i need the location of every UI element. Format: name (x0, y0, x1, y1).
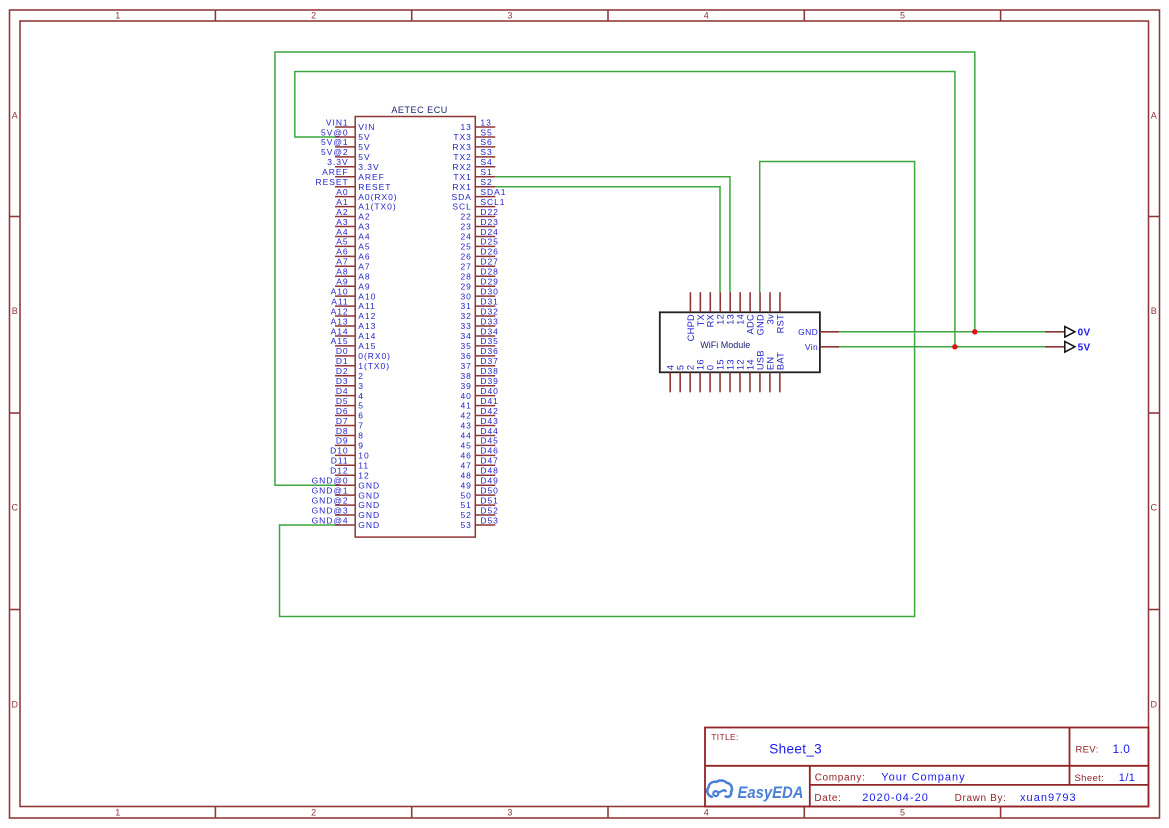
pin 47 (net D47) right of U1 (460, 456, 498, 471)
svg-text:2020-04-20: 2020-04-20 (862, 792, 929, 804)
pin A0(RX0) (net A0) left of U1 (335, 187, 398, 202)
pin 40 (net D40) right of U1 (460, 386, 498, 401)
pin 14 bottom of U2 (745, 359, 755, 392)
pin TX2 (net S3) right of U1 (453, 147, 495, 162)
svg-text:A3: A3 (336, 217, 348, 227)
pin A5 (net A5) left of U1 (335, 237, 371, 252)
svg-text:A0(RX0): A0(RX0) (358, 192, 397, 202)
pin 10 (net D10) left of U1 (330, 446, 370, 461)
junction dot net 5V (952, 344, 957, 349)
svg-text:5V@0: 5V@0 (321, 127, 349, 137)
pin 1(TX0) (net D1) left of U1 (335, 356, 390, 371)
svg-text:31: 31 (460, 301, 471, 311)
svg-text:B: B (1151, 306, 1157, 316)
pin 16 bottom of U2 (696, 359, 706, 392)
svg-text:1: 1 (115, 808, 120, 818)
svg-text:3: 3 (507, 808, 512, 818)
pin 24 (net D24) right of U1 (460, 227, 498, 242)
wire net 5V : U2 Vin pin to 5V net flag (839, 346, 1045, 348)
pin 42 (net D42) right of U1 (460, 406, 498, 421)
svg-text:5: 5 (676, 365, 686, 370)
svg-text:D50: D50 (480, 485, 498, 495)
svg-text:D0: D0 (336, 346, 349, 356)
svg-text:9: 9 (358, 441, 364, 451)
pin 50 (net D50) right of U1 (460, 485, 498, 500)
svg-text:GND: GND (358, 520, 380, 530)
Sheet value 1/1 (1119, 772, 1136, 784)
pin 32 (net D32) right of U1 (460, 306, 498, 321)
svg-text:VIN1: VIN1 (326, 117, 349, 127)
svg-text:RESET: RESET (358, 182, 391, 192)
svg-text:32: 32 (460, 311, 471, 321)
svg-text:5V: 5V (1078, 342, 1091, 353)
svg-text:42: 42 (460, 411, 471, 421)
svg-text:3: 3 (358, 381, 364, 391)
svg-text:0: 0 (705, 365, 715, 370)
pin 43 (net D43) right of U1 (460, 416, 498, 431)
pin A7 (net A7) left of U1 (335, 257, 371, 272)
svg-text:Sheet_3: Sheet_3 (769, 741, 822, 756)
svg-text:14: 14 (736, 314, 746, 325)
svg-text:35: 35 (460, 341, 471, 351)
Drawn By value xuan9793 (1020, 792, 1077, 804)
pin 39 (net D39) right of U1 (460, 376, 498, 391)
svg-text:D36: D36 (480, 346, 498, 356)
svg-text:CHPD: CHPD (686, 314, 696, 341)
svg-text:C: C (11, 503, 18, 513)
pin 3 (net D3) left of U1 (335, 376, 364, 391)
Date value 2020-04-20 (862, 792, 929, 804)
pin GND right of U2 (798, 327, 839, 337)
pin CHPD top of U2 (686, 292, 696, 341)
svg-text:A2: A2 (336, 207, 348, 217)
svg-text:25: 25 (460, 242, 471, 252)
svg-text:S5: S5 (480, 127, 492, 137)
svg-text:A14: A14 (358, 331, 376, 341)
pin BAT bottom of U2 (775, 352, 785, 392)
svg-text:30: 30 (460, 291, 471, 301)
svg-text:D34: D34 (480, 326, 498, 336)
svg-text:3.3V: 3.3V (358, 162, 379, 172)
REV value 1.0 (1113, 742, 1131, 756)
svg-text:26: 26 (460, 251, 471, 261)
svg-text:D6: D6 (336, 406, 349, 416)
pin 6 (net D6) left of U1 (335, 406, 364, 421)
pin GND (net GND@1) left of U1 (312, 485, 380, 500)
svg-text:A4: A4 (358, 232, 370, 242)
svg-text:A0: A0 (336, 187, 348, 197)
svg-text:4: 4 (358, 391, 364, 401)
pin 41 (net D41) right of U1 (460, 396, 498, 411)
svg-text:TX: TX (696, 314, 706, 326)
svg-text:45: 45 (460, 441, 471, 451)
pin GND top of U2 (755, 292, 765, 335)
svg-text:D47: D47 (480, 456, 498, 466)
svg-text:D27: D27 (480, 257, 498, 267)
svg-text:D2: D2 (336, 366, 349, 376)
svg-text:33: 33 (460, 321, 471, 331)
svg-text:RX3: RX3 (452, 142, 471, 152)
svg-text:15: 15 (715, 359, 725, 370)
svg-text:2: 2 (686, 365, 696, 370)
pin 29 (net D29) right of U1 (460, 277, 498, 292)
IC U1 name label AETEC ECU (391, 105, 447, 115)
pin 22 (net D22) right of U1 (460, 207, 498, 222)
svg-text:D31: D31 (480, 296, 498, 306)
svg-text:D7: D7 (336, 416, 349, 426)
pin USB bottom of U2 (755, 350, 765, 392)
svg-text:A7: A7 (336, 257, 348, 267)
pin 15 bottom of U2 (715, 359, 725, 392)
svg-text:D4: D4 (336, 386, 349, 396)
svg-text:D42: D42 (480, 406, 498, 416)
pin A11 (net A11) left of U1 (331, 296, 375, 311)
svg-text:A11: A11 (358, 301, 375, 311)
wire net GND : U1 pin GND@4 around bottom to U2 top GND pin (280, 162, 915, 617)
sheet title value Sheet_3 (769, 741, 822, 756)
svg-text:B: B (12, 306, 18, 316)
svg-text:D46: D46 (480, 446, 498, 456)
pin 30 (net D30) right of U1 (460, 286, 498, 301)
svg-text:A9: A9 (336, 277, 348, 287)
svg-text:6: 6 (358, 411, 364, 421)
svg-text:S4: S4 (480, 157, 492, 167)
REV label (1076, 745, 1099, 756)
svg-text:GND: GND (358, 490, 380, 500)
Company value Your Company (881, 771, 965, 783)
svg-text:D: D (1151, 700, 1158, 710)
svg-text:RX1: RX1 (452, 182, 471, 192)
svg-text:10: 10 (358, 450, 369, 460)
svg-text:A5: A5 (336, 237, 348, 247)
svg-text:SCL1: SCL1 (480, 197, 505, 207)
pin A13 (net A13) left of U1 (331, 316, 377, 331)
svg-text:1(TX0): 1(TX0) (358, 361, 390, 371)
module U2 label WiFi Module (700, 340, 750, 350)
pin 36 (net D36) right of U1 (460, 346, 498, 361)
pin 46 (net D46) right of U1 (460, 446, 498, 461)
pin 13 top of U2 (726, 292, 736, 325)
svg-text:34: 34 (460, 331, 471, 341)
pin A1(TX0) (net A1) left of U1 (335, 197, 397, 212)
pin A14 (net A14) left of U1 (331, 326, 377, 341)
svg-text:D28: D28 (480, 267, 498, 277)
pin 52 (net D52) right of U1 (460, 505, 498, 520)
svg-text:48: 48 (460, 470, 471, 480)
svg-text:A12: A12 (358, 311, 376, 321)
svg-text:5V: 5V (358, 132, 370, 142)
pin GND (net GND@4) left of U1 (312, 515, 380, 530)
svg-text:USB: USB (755, 350, 765, 370)
svg-text:14: 14 (745, 359, 755, 370)
pin 12 top of U2 (716, 292, 726, 325)
svg-text:D: D (11, 700, 18, 710)
net flag 5V (1045, 342, 1091, 354)
svg-text:8: 8 (358, 431, 364, 441)
svg-text:2: 2 (311, 808, 316, 818)
svg-text:D35: D35 (480, 336, 498, 346)
svg-text:12: 12 (358, 470, 369, 480)
pin 48 (net D48) right of U1 (460, 466, 498, 481)
svg-text:28: 28 (460, 271, 471, 281)
pin A12 (net A12) left of U1 (331, 306, 377, 321)
Company label (815, 772, 866, 783)
Sheet label (1075, 773, 1105, 784)
pin ADC top of U2 (746, 292, 756, 334)
pin 5V (net 5V@2) left of U1 (321, 147, 371, 162)
pin 13 bottom of U2 (725, 359, 735, 392)
svg-text:5: 5 (900, 808, 905, 818)
svg-text:Company:: Company: (815, 772, 866, 783)
svg-text:A10: A10 (358, 291, 376, 301)
svg-text:S2: S2 (480, 177, 492, 187)
pin A3 (net A3) left of U1 (335, 217, 371, 232)
svg-text:A1(TX0): A1(TX0) (358, 202, 396, 212)
pin SDA (net SDA1) right of U1 (451, 187, 506, 202)
svg-text:11: 11 (358, 460, 369, 470)
pin Vin right of U2 (805, 342, 839, 352)
svg-text:23: 23 (460, 222, 471, 232)
svg-text:D51: D51 (480, 495, 498, 505)
svg-text:D22: D22 (480, 207, 498, 217)
svg-text:TITLE:: TITLE: (711, 732, 738, 742)
pin 31 (net D31) right of U1 (460, 296, 498, 311)
svg-text:1.0: 1.0 (1113, 742, 1131, 756)
svg-text:2: 2 (358, 371, 364, 381)
svg-text:D9: D9 (336, 436, 349, 446)
pin 5V (net 5V@1) left of U1 (321, 137, 371, 152)
svg-text:GND: GND (755, 314, 765, 335)
svg-text:50: 50 (460, 490, 471, 500)
pin 14 top of U2 (736, 292, 746, 325)
pin 8 (net D8) left of U1 (335, 426, 364, 441)
pin 38 (net D38) right of U1 (460, 366, 498, 381)
svg-text:D5: D5 (336, 396, 349, 406)
svg-text:A15: A15 (358, 341, 376, 351)
svg-text:27: 27 (460, 261, 471, 271)
svg-text:29: 29 (460, 281, 471, 291)
svg-text:A: A (1151, 110, 1157, 120)
svg-text:D26: D26 (480, 247, 498, 257)
svg-text:S6: S6 (480, 137, 492, 147)
svg-text:D33: D33 (480, 316, 498, 326)
module U2 WiFi Module body (660, 312, 820, 372)
svg-text:A13: A13 (358, 321, 376, 331)
svg-text:12: 12 (716, 314, 726, 325)
svg-text:TX3: TX3 (453, 132, 471, 142)
svg-text:5V@1: 5V@1 (321, 137, 349, 147)
svg-text:SDA1: SDA1 (480, 187, 506, 197)
svg-text:RX: RX (706, 314, 716, 327)
svg-text:1/1: 1/1 (1119, 772, 1136, 784)
pin RST top of U2 (775, 292, 785, 333)
wire net 5V : U1 pin 5V@0 to WiFi Vin junction (295, 72, 955, 347)
svg-text:A10: A10 (331, 286, 349, 296)
junction dot net 0V (972, 329, 977, 334)
pin 4 bottom of U2 (666, 365, 676, 393)
svg-text:BAT: BAT (775, 352, 785, 370)
svg-text:GND@2: GND@2 (312, 495, 349, 505)
svg-text:2: 2 (311, 11, 316, 21)
pin 5 (net D5) left of U1 (335, 396, 364, 411)
svg-text:D40: D40 (480, 386, 498, 396)
svg-text:GND@0: GND@0 (312, 476, 349, 486)
svg-text:RX2: RX2 (452, 162, 471, 172)
svg-text:D1: D1 (336, 356, 349, 366)
pin 0 bottom of U2 (705, 365, 715, 393)
pin SCL (net SCL1) right of U1 (452, 197, 505, 212)
pin A8 (net A8) left of U1 (335, 267, 371, 282)
svg-text:5: 5 (900, 11, 905, 21)
svg-text:A14: A14 (331, 326, 349, 336)
svg-text:13: 13 (726, 314, 736, 325)
pin TX top of U2 (696, 292, 706, 326)
svg-text:4: 4 (704, 11, 709, 21)
pin 28 (net D28) right of U1 (460, 267, 498, 282)
svg-text:D25: D25 (480, 237, 498, 247)
svg-text:D24: D24 (480, 227, 498, 237)
pin A9 (net A9) left of U1 (335, 277, 371, 292)
svg-text:Date:: Date: (814, 793, 841, 804)
svg-text:C: C (1151, 503, 1158, 513)
svg-text:D39: D39 (480, 376, 498, 386)
svg-text:GND: GND (358, 500, 380, 510)
svg-text:A12: A12 (331, 306, 349, 316)
svg-text:16: 16 (696, 359, 706, 370)
svg-text:D38: D38 (480, 366, 498, 376)
svg-text:0(RX0): 0(RX0) (358, 351, 391, 361)
svg-text:D44: D44 (480, 426, 498, 436)
svg-text:7: 7 (358, 421, 364, 431)
svg-text:D41: D41 (480, 396, 498, 406)
svg-text:41: 41 (460, 401, 471, 411)
svg-text:44: 44 (460, 431, 471, 441)
IC U1 AETEC ECU body (355, 117, 475, 538)
title block TITLE label (711, 732, 738, 742)
svg-text:0V: 0V (1078, 327, 1091, 338)
svg-text:REV:: REV: (1076, 745, 1099, 756)
pin 27 (net D27) right of U1 (460, 257, 498, 272)
svg-text:40: 40 (460, 391, 471, 401)
pin GND (net GND@0) left of U1 (312, 476, 380, 491)
wire net 0V : U1 pin GND@0 to 0V flag junction (275, 52, 975, 485)
svg-text:VIN: VIN (358, 122, 375, 132)
pin 0(RX0) (net D0) left of U1 (335, 346, 391, 361)
pin VIN (net VIN1) left of U1 (326, 117, 375, 132)
pin A10 (net A10) left of U1 (331, 286, 377, 301)
pin 2 bottom of U2 (686, 365, 696, 393)
svg-text:AREF: AREF (358, 172, 384, 182)
svg-text:SDA: SDA (451, 192, 471, 202)
svg-text:D45: D45 (480, 436, 498, 446)
pin A15 (net A15) left of U1 (331, 336, 377, 351)
svg-text:EN: EN (765, 357, 775, 370)
svg-text:D32: D32 (480, 306, 498, 316)
pin A6 (net A6) left of U1 (335, 247, 371, 262)
svg-text:WiFi Module: WiFi Module (700, 340, 750, 350)
frame column numbers (115, 11, 905, 818)
svg-text:A9: A9 (358, 281, 370, 291)
pin 51 (net D51) right of U1 (460, 495, 498, 510)
svg-text:Sheet:: Sheet: (1075, 773, 1105, 784)
svg-text:49: 49 (460, 480, 471, 490)
frame row letters (11, 110, 1157, 709)
pin 5 bottom of U2 (676, 365, 686, 393)
svg-text:51: 51 (460, 500, 471, 510)
pin 34 (net D34) right of U1 (460, 326, 498, 341)
pin 4 (net D4) left of U1 (335, 386, 364, 401)
pin 12 bottom of U2 (735, 359, 745, 392)
wire net S2 : U1 pin RX1 to U2 pin 12 (495, 187, 720, 293)
svg-text:A15: A15 (331, 336, 349, 346)
svg-text:12: 12 (735, 359, 745, 370)
svg-text:A6: A6 (358, 251, 370, 261)
svg-text:RST: RST (775, 314, 785, 333)
pin 11 (net D11) left of U1 (331, 456, 369, 471)
svg-text:ADC: ADC (746, 314, 756, 334)
svg-text:D43: D43 (480, 416, 498, 426)
pin 3v top of U2 (765, 292, 775, 324)
svg-text:TX1: TX1 (453, 172, 471, 182)
svg-text:Drawn By:: Drawn By: (955, 793, 1007, 804)
svg-text:37: 37 (460, 361, 471, 371)
pin RESET (net RESET) left of U1 (316, 177, 392, 192)
svg-text:A5: A5 (358, 242, 370, 252)
svg-text:D12: D12 (330, 466, 348, 476)
svg-text:AETEC ECU: AETEC ECU (391, 105, 447, 115)
svg-text:A7: A7 (358, 261, 370, 271)
svg-text:A8: A8 (358, 271, 370, 281)
svg-text:4: 4 (704, 808, 709, 818)
svg-text:A13: A13 (331, 316, 349, 326)
svg-text:5: 5 (358, 401, 364, 411)
svg-text:xuan9793: xuan9793 (1020, 792, 1077, 804)
pin 49 (net D49) right of U1 (460, 476, 498, 491)
pin 44 (net D44) right of U1 (460, 426, 498, 441)
pin 12 (net D12) left of U1 (330, 466, 370, 481)
svg-text:13: 13 (725, 359, 735, 370)
svg-text:36: 36 (460, 351, 471, 361)
pin RX2 (net S4) right of U1 (452, 157, 495, 172)
svg-text:A: A (12, 110, 18, 120)
pin GND (net GND@3) left of U1 (312, 505, 380, 520)
svg-text:1: 1 (115, 11, 120, 21)
svg-text:D48: D48 (480, 466, 498, 476)
pin 7 (net D7) left of U1 (335, 416, 364, 431)
pin RX top of U2 (706, 292, 716, 327)
wire net S1 : U1 pin TX1 to U2 pin 13 (495, 177, 730, 292)
svg-text:D23: D23 (480, 217, 498, 227)
pin 37 (net D37) right of U1 (460, 356, 498, 371)
svg-text:TX2: TX2 (453, 152, 471, 162)
svg-text:53: 53 (460, 520, 471, 530)
svg-text:AREF: AREF (322, 167, 348, 177)
svg-text:D37: D37 (480, 356, 498, 366)
svg-text:24: 24 (460, 232, 471, 242)
pin 25 (net D25) right of U1 (460, 237, 498, 252)
svg-text:38: 38 (460, 371, 471, 381)
svg-text:D53: D53 (480, 515, 498, 525)
svg-text:A11: A11 (331, 296, 348, 306)
svg-text:5V: 5V (358, 142, 370, 152)
svg-text:13: 13 (460, 122, 471, 132)
svg-text:D10: D10 (330, 446, 348, 456)
svg-text:D11: D11 (331, 456, 349, 466)
svg-text:D3: D3 (336, 376, 349, 386)
svg-text:A8: A8 (336, 267, 348, 277)
svg-text:A1: A1 (336, 197, 348, 207)
pin TX1 (net S1) right of U1 (453, 167, 495, 182)
